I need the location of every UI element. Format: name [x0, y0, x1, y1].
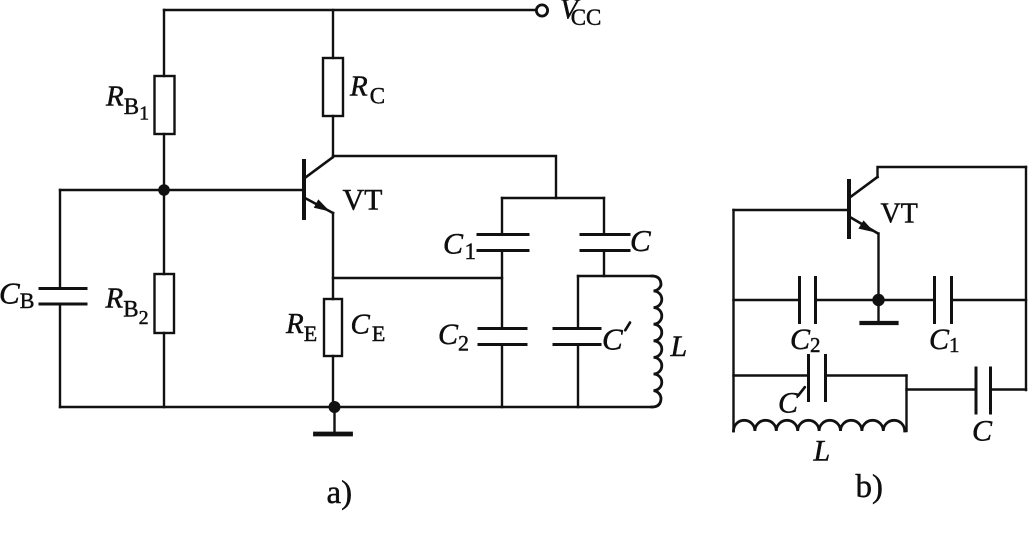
wire: Vcc supply rail (circuit a)	[164, 9, 536, 11]
capacitor C2 (circuit a)	[479, 329, 526, 345]
wire: Rb1 top lead	[163, 10, 165, 76]
node: emitter ground junction dot	[329, 401, 341, 413]
resistor RC	[323, 58, 343, 116]
ground symbol (circuit b)	[862, 300, 897, 323]
capacitor C1 (circuit b)	[935, 278, 952, 323]
wire: C top lead	[603, 198, 605, 234]
wire: C wire left segment (circuit b)	[907, 388, 977, 390]
svg-text:C1: C1	[929, 323, 960, 357]
node: emitter junction dot (circuit b)	[872, 294, 884, 306]
wire: Rb1 bottom lead to base node	[163, 134, 165, 190]
svg-text:C2: C2	[438, 318, 469, 356]
svg-text:L: L	[670, 330, 688, 363]
resistor RE	[324, 299, 342, 356]
Vcc terminal circle	[536, 5, 547, 16]
resistor RB1	[155, 76, 175, 134]
capacitor C-prime (circuit a)	[554, 329, 600, 345]
wire: middle bus center segment (circuit b)	[816, 299, 935, 301]
wire: base wire (circuit b)	[734, 209, 849, 211]
wire: middle bus left segment (circuit b)	[734, 299, 800, 301]
svg-text:CB: CB	[0, 276, 34, 314]
wire: emitter lead down to RE	[332, 213, 334, 299]
wire: tank right vertical (circuit b)	[905, 376, 907, 432]
transistor VT (circuit a)	[304, 158, 333, 219]
svg-text:CE: CE	[351, 308, 386, 346]
svg-text:b): b)	[856, 469, 884, 505]
wire: C-prime top lead	[577, 276, 579, 328]
wire: left bias branch lower segment	[59, 304, 61, 407]
wire: C-prime wire left segment (circuit b)	[734, 374, 809, 376]
wire: emitter lead (circuit b)	[877, 234, 879, 301]
capacitor C1 (circuit a)	[478, 235, 528, 251]
inductor L (circuit a)	[652, 276, 662, 407]
inductor L (circuit b)	[734, 420, 905, 431]
svg-text:C2: C2	[790, 323, 821, 357]
svg-text:C1: C1	[443, 228, 476, 265]
svg-text:C: C	[972, 415, 993, 448]
wire: collector to top rail (circuit b)	[878, 167, 1027, 177]
wire: C bottom lead	[603, 251, 605, 277]
wire: Rc bottom lead to collector	[332, 116, 334, 157]
svg-text:RB2: RB2	[105, 283, 149, 329]
capacitor C (circuit b)	[976, 368, 991, 413]
wire: Rb2 bottom lead	[163, 333, 165, 407]
wire: Rc top lead	[332, 10, 334, 58]
wire: left edge (circuit b)	[732, 210, 734, 431]
capacitor C2 (circuit b)	[800, 278, 816, 323]
wire: C wire right segment (circuit b)	[991, 388, 1027, 390]
wire: middle bus right segment (circuit b)	[952, 299, 1027, 301]
wire: ground bus (circuit a)	[60, 406, 652, 408]
wire: left bias branch upper segment	[59, 190, 61, 288]
transistor VT (circuit b)	[849, 177, 878, 237]
wire: C-prime wire right segment (circuit b)	[826, 374, 907, 376]
wire: base wire	[60, 189, 303, 191]
capacitor C-prime (circuit b)	[809, 356, 826, 401]
svg-text:C: C	[630, 223, 651, 258]
node A: base junction dot	[158, 184, 170, 196]
svg-text:RB1: RB1	[105, 81, 149, 125]
wire: C1 top lead	[501, 198, 503, 234]
svg-text:L: L	[813, 435, 831, 468]
wire: top bus joining C1 and C branches	[502, 197, 604, 199]
capacitor C (circuit a)	[581, 235, 629, 251]
svg-text:VCC: VCC	[560, 0, 601, 30]
svg-text:C: C	[602, 322, 623, 357]
svg-text:VT: VT	[343, 184, 383, 217]
svg-text:a): a)	[327, 475, 353, 511]
resistor RB2	[155, 274, 175, 333]
svg-text:VT: VT	[881, 199, 918, 230]
wire: C2 bottom lead	[501, 345, 503, 408]
wire: emitter tap to C1-C2 midpoint	[333, 277, 502, 279]
capacitor CB	[40, 289, 86, 305]
svg-text:RC: RC	[349, 71, 385, 109]
wire: C1 to C2 link through emitter tap	[501, 251, 503, 329]
wire: Rb2 top lead	[163, 190, 165, 274]
svg-text:C: C	[778, 387, 799, 420]
wire: RE bottom lead to ground node	[332, 356, 334, 407]
wire: C-prime / L top link	[578, 275, 652, 277]
wire: right edge (circuit b)	[1025, 167, 1027, 390]
svg-text:RE: RE	[285, 308, 317, 346]
wire: collector tap to C1/C top bus	[333, 156, 556, 198]
ground symbol (circuit a)	[316, 407, 351, 434]
wire: C-prime bottom lead	[577, 345, 579, 408]
